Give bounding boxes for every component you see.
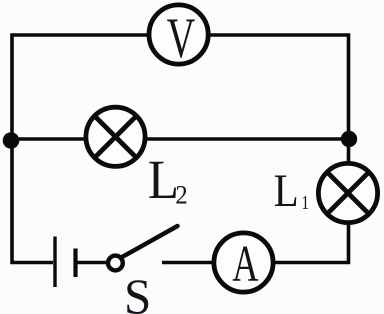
wire middle branch: [11, 137, 349, 141]
switch S lever arm: [122, 226, 178, 257]
svg-text:L: L: [148, 150, 179, 210]
ammeter A circle: [214, 233, 273, 292]
svg-text:V: V: [167, 6, 195, 70]
svg-text:2: 2: [175, 181, 187, 210]
svg-text:L: L: [274, 164, 299, 216]
lamp L2 cross: [95, 116, 137, 158]
svg-text:A: A: [232, 235, 259, 293]
lamp L1 circle: [318, 163, 377, 222]
lamp L1 cross: [327, 172, 369, 214]
voltmeter V circle: [149, 5, 208, 64]
wire battery-to-switch: [78, 261, 111, 265]
lamp L2 circle: [86, 107, 145, 166]
junction node left: [3, 132, 20, 149]
switch S pivot circle: [108, 256, 123, 271]
battery short plate (negative): [73, 249, 77, 278]
battery long plate (positive): [53, 237, 56, 288]
junction node right: [341, 131, 357, 147]
svg-text:1: 1: [302, 191, 309, 214]
svg-text:S: S: [124, 269, 151, 314]
wire outer loop (top, left, right, bottom segments): [12, 35, 349, 263]
